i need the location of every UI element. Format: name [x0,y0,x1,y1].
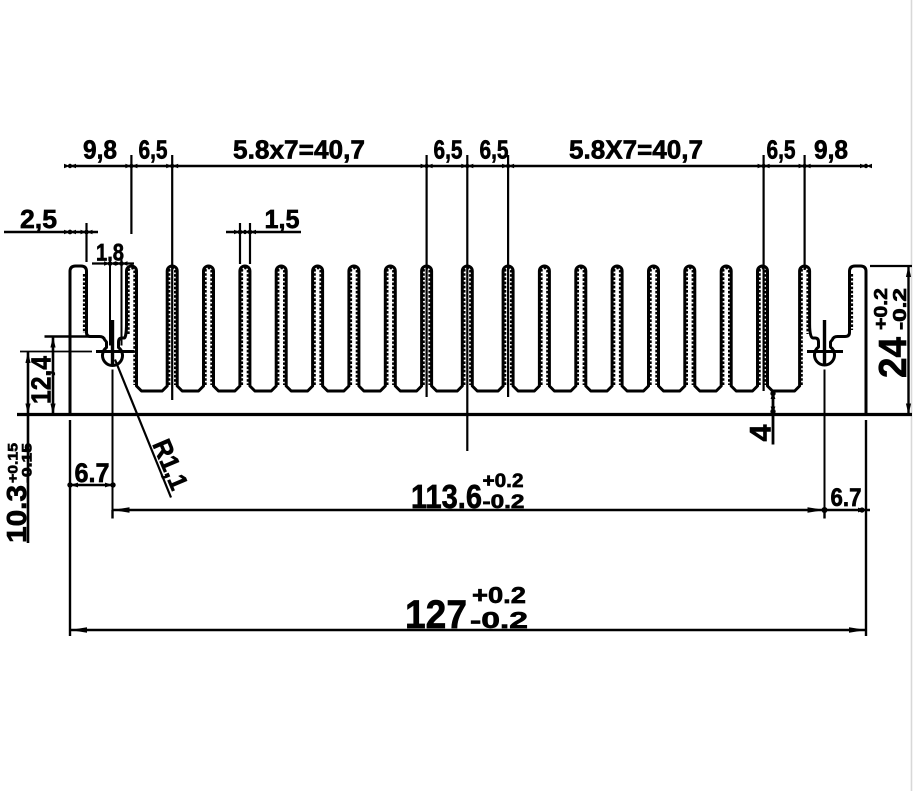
dimension 6,7 right [822,484,871,513]
svg-text:4: 4 [745,424,778,441]
svg-text:6,5: 6,5 [139,135,168,165]
svg-text:+0.2: +0.2 [871,288,891,330]
centreline right screw channel [807,320,843,510]
svg-text:-0.2: -0.2 [890,288,910,330]
svg-text:10.3: 10.3 [1,485,32,543]
top dimension line with extension lines [64,155,872,451]
dimension 1,5 (fin thickness) [226,204,301,264]
svg-text:9,8: 9,8 [83,135,117,165]
svg-text:5.8x7=40,7: 5.8x7=40,7 [233,135,365,165]
dimension 10.3 +0.15/-0.15 (channel centre height) [1,352,35,543]
dim text 9,8 right [814,135,848,165]
centreline left screw channel [20,320,134,510]
dimension 2,5 (wall thickness) [4,204,98,262]
dimension 24 +0.2/-0.2 (profile height) [870,266,914,415]
dim text 9,8 left [83,135,117,165]
svg-text:6.7: 6.7 [75,458,110,488]
dimension 12,4 (slot floor height) [26,337,95,415]
dim text 6,5 right [767,135,796,165]
dimension 6,7 left [67,420,115,636]
svg-text:113.6: 113.6 [411,478,482,515]
dim text 6,5 mid-right [480,135,509,165]
svg-text:-0.2: -0.2 [470,607,528,633]
svg-text:+0.2: +0.2 [483,471,524,492]
dim text 6,5 left [139,135,168,165]
svg-text:6.7: 6.7 [831,484,862,512]
svg-text:1,5: 1,5 [265,204,300,234]
dimension 127 +0.2/-0.2 (overall width) [70,420,866,637]
svg-text:-0.15: -0.15 [19,443,35,483]
svg-text:1.8: 1.8 [96,240,124,267]
svg-text:6,5: 6,5 [767,135,796,165]
dimension 4 (base thickness) [745,390,778,445]
dim text 6,5 mid-left [434,135,463,165]
dim text 5.8X7=40,7 right [569,135,703,165]
dim text 5.8x7=40,7 left [233,135,365,165]
profile base bottom edge [17,413,912,416]
svg-text:6,5: 6,5 [480,135,509,165]
heatsink profile outline [70,266,866,415]
svg-text:+0.2: +0.2 [472,582,526,608]
svg-text:-0.2: -0.2 [483,492,525,513]
svg-text:24: 24 [872,337,914,378]
svg-text:9,8: 9,8 [814,135,848,165]
dimension 1,8 (slot mouth) [92,240,134,346]
svg-text:5.8X7=40,7: 5.8X7=40,7 [569,135,703,165]
svg-text:127: 127 [405,593,467,637]
svg-text:2,5: 2,5 [20,204,57,234]
dimension 113.6 +0.2/-0.2 [113,471,825,519]
fin surface serration texture [84,268,852,385]
svg-text:6,5: 6,5 [434,135,463,165]
scan edge artifact right border [911,0,913,791]
leader R1,1 (channel radius) [115,360,194,498]
